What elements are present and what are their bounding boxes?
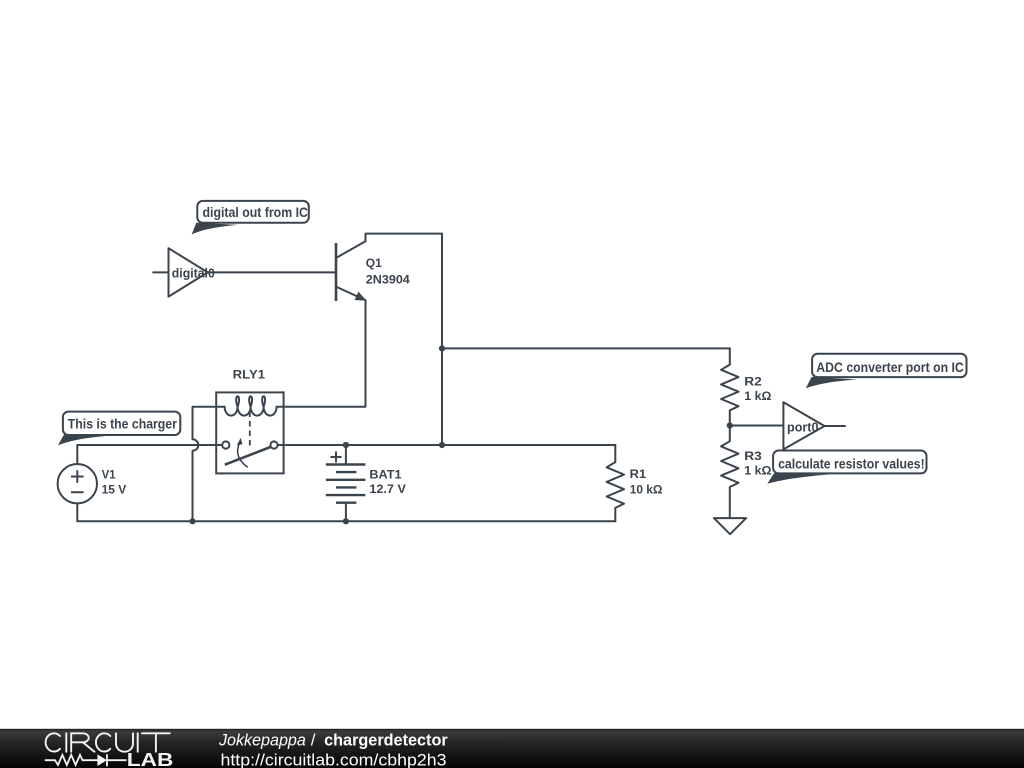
resistor R3: [721, 441, 772, 487]
wire node B to port0: [730, 425, 784, 427]
svg-text:R1: R1: [630, 467, 647, 481]
wire node A to R2 top: [442, 347, 730, 349]
transistor Q1 2N3904: [336, 241, 410, 301]
svg-text:chargerdetector: chargerdetector: [324, 730, 448, 749]
wire R3 bottom lead to ground: [729, 487, 731, 518]
svg-text:1 kΩ: 1 kΩ: [744, 389, 772, 403]
junction BAT1 top dot: [343, 442, 349, 448]
svg-text:LAB: LAB: [127, 749, 174, 768]
junction node collector-midbus dot: [439, 442, 445, 448]
svg-text:15 V: 15 V: [102, 483, 127, 497]
wire R1 top lead: [614, 445, 616, 462]
wire relay coil left terminal down to bottom bus with hop over horizontal wire: [193, 407, 217, 522]
svg-text:10 kΩ: 10 kΩ: [630, 483, 663, 497]
wire digital0 stub: [153, 271, 168, 273]
input flag digital0: [169, 248, 215, 296]
ground: [714, 518, 746, 534]
CircuitLab logo CIRCUIT letters: [46, 733, 170, 751]
relay coil: [216, 396, 283, 415]
resistor R1: [607, 462, 663, 508]
svg-text:RLY1: RLY1: [233, 367, 266, 381]
wire V1 bottom lead: [76, 503, 78, 521]
svg-text:Jokkepappa: Jokkepappa: [218, 730, 306, 749]
svg-text:R2: R2: [744, 374, 762, 388]
callout calculate resistor values!: [767, 451, 926, 484]
svg-text:http://circuitlab.com/cbhp2h3: http://circuitlab.com/cbhp2h3: [221, 750, 447, 768]
wire R2 top lead: [729, 348, 731, 364]
wire BAT1 top lead: [345, 445, 347, 465]
svg-text:ADC converter port on IC: ADC converter port on IC: [816, 360, 964, 375]
relay switch arm: [225, 447, 271, 465]
svg-text:12.7 V: 12.7 V: [369, 482, 406, 496]
wire BAT1 bottom lead: [345, 503, 347, 522]
junction node B dot (R2-R3-port0): [727, 422, 733, 428]
wire V1 plus to relay switch: [77, 444, 222, 446]
wire relay switch out to R1 top (mid bus): [278, 444, 616, 446]
svg-text:This is the charger: This is the charger: [68, 417, 178, 432]
relay RLY1: [216, 367, 283, 473]
callout ADC converter port on IC: [806, 354, 967, 389]
wire R1 bottom lead: [614, 508, 616, 521]
wire digital0 to Q1 base: [208, 271, 336, 273]
junction BAT1 bottom dot: [343, 518, 349, 524]
svg-text:V1: V1: [102, 468, 116, 482]
wire bottom bus: [77, 520, 615, 522]
svg-text:Q1: Q1: [366, 256, 382, 270]
wire R2 bottom lead to node B: [729, 410, 731, 425]
junction bottom bus left dot: [189, 518, 195, 524]
svg-text:1 kΩ: 1 kΩ: [744, 464, 772, 478]
wire Q1 emitter down and left to relay coil: [284, 300, 366, 407]
svg-text:digital0: digital0: [172, 266, 215, 281]
svg-text:2N3904: 2N3904: [366, 273, 410, 287]
wire port0 stub: [825, 425, 846, 427]
callout This is the charger: [58, 412, 180, 446]
svg-text:/: /: [311, 730, 316, 749]
wire V1 top lead: [76, 445, 78, 464]
callout digital out from IC: [192, 201, 309, 235]
wire node A down to mid bus: [441, 348, 443, 445]
svg-text:R3: R3: [744, 449, 762, 463]
battery BAT1: [326, 452, 406, 503]
svg-text:port0: port0: [787, 419, 819, 434]
relay switch pins: [222, 441, 229, 448]
voltage source V1: [58, 464, 127, 503]
wire R3 top lead: [729, 426, 731, 442]
svg-text:digital out from IC: digital out from IC: [203, 205, 309, 220]
CircuitLab logo resistor-diode glyph: [45, 754, 127, 766]
relay actuate arrow: [238, 444, 248, 468]
wire Q1 collector to node A: [366, 234, 443, 349]
svg-text:BAT1: BAT1: [369, 467, 402, 481]
resistor R2: [721, 365, 772, 411]
svg-text:calculate resistor values!: calculate resistor values!: [778, 457, 925, 472]
junction node A dot: [439, 345, 445, 351]
output flag port0: [783, 402, 824, 449]
footer bar: [0, 729, 1024, 768]
relay linkage dashed line: [249, 412, 251, 450]
